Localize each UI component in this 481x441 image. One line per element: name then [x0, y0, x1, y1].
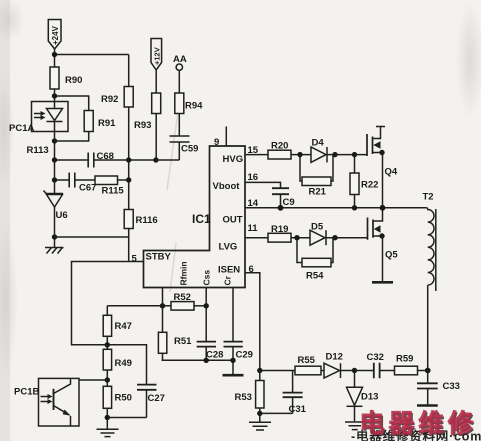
svg-text:C68: C68 [97, 151, 114, 162]
svg-text:C28: C28 [206, 350, 223, 361]
svg-text:Q4: Q4 [385, 167, 398, 178]
svg-text:C9: C9 [283, 197, 295, 208]
svg-text:ISEN: ISEN [218, 265, 240, 276]
svg-text:Q5: Q5 [385, 250, 398, 261]
svg-text:C59: C59 [181, 144, 198, 155]
svg-text:R21: R21 [309, 187, 327, 198]
svg-text:11: 11 [248, 223, 259, 234]
svg-text:+24V: +24V [51, 25, 60, 45]
svg-text:D4: D4 [312, 138, 325, 149]
svg-text:C29: C29 [236, 350, 253, 361]
svg-text:R115: R115 [102, 186, 125, 197]
svg-text:R20: R20 [271, 141, 288, 152]
svg-text:R113: R113 [27, 145, 49, 156]
svg-text:R49: R49 [115, 358, 132, 369]
svg-text:R59: R59 [396, 354, 413, 365]
svg-text:C32: C32 [367, 352, 384, 363]
svg-text:R55: R55 [298, 355, 316, 366]
svg-text:R92: R92 [101, 94, 118, 105]
svg-text:Rfmin: Rfmin [179, 261, 189, 285]
svg-text:C33: C33 [443, 381, 460, 392]
svg-text:Css: Css [202, 270, 212, 286]
svg-text:LVG: LVG [219, 242, 238, 253]
svg-text:PC1A: PC1A [9, 123, 34, 134]
svg-text:C31: C31 [289, 404, 307, 415]
svg-text:R22: R22 [361, 180, 378, 191]
svg-text:R94: R94 [185, 101, 203, 112]
svg-text:C67: C67 [79, 183, 96, 194]
svg-text:OUT: OUT [223, 215, 243, 226]
svg-text:STBY: STBY [146, 252, 172, 263]
svg-text:R53: R53 [235, 392, 252, 403]
svg-text:HVG: HVG [223, 154, 244, 165]
svg-text:D5: D5 [311, 222, 324, 233]
svg-text:R51: R51 [174, 336, 192, 347]
svg-text:Vboot: Vboot [213, 181, 241, 192]
svg-text:5: 5 [132, 254, 138, 265]
svg-text:R93: R93 [134, 120, 151, 131]
svg-text:U6: U6 [56, 210, 68, 221]
svg-text:R116: R116 [136, 215, 158, 226]
svg-text:C27: C27 [148, 393, 165, 404]
svg-text:D12: D12 [326, 352, 343, 363]
svg-text:IC1: IC1 [192, 212, 211, 226]
svg-text:R19: R19 [271, 224, 288, 235]
svg-text:AA: AA [173, 54, 187, 65]
svg-text:D13: D13 [361, 392, 378, 403]
svg-text:16: 16 [248, 172, 259, 183]
svg-text:R52: R52 [174, 292, 191, 303]
svg-text:R90: R90 [65, 75, 82, 86]
svg-text:9: 9 [214, 137, 219, 148]
svg-text:+12V: +12V [152, 47, 161, 65]
svg-text:PC1B: PC1B [14, 387, 39, 398]
svg-text:R47: R47 [115, 321, 132, 332]
svg-text:R50: R50 [115, 393, 132, 404]
svg-text:Cr: Cr [223, 275, 233, 285]
svg-text:R54: R54 [306, 271, 324, 282]
svg-text:R91: R91 [98, 118, 116, 129]
svg-text:电器维修: 电器维修 [360, 409, 478, 438]
svg-text:T2: T2 [423, 192, 434, 203]
